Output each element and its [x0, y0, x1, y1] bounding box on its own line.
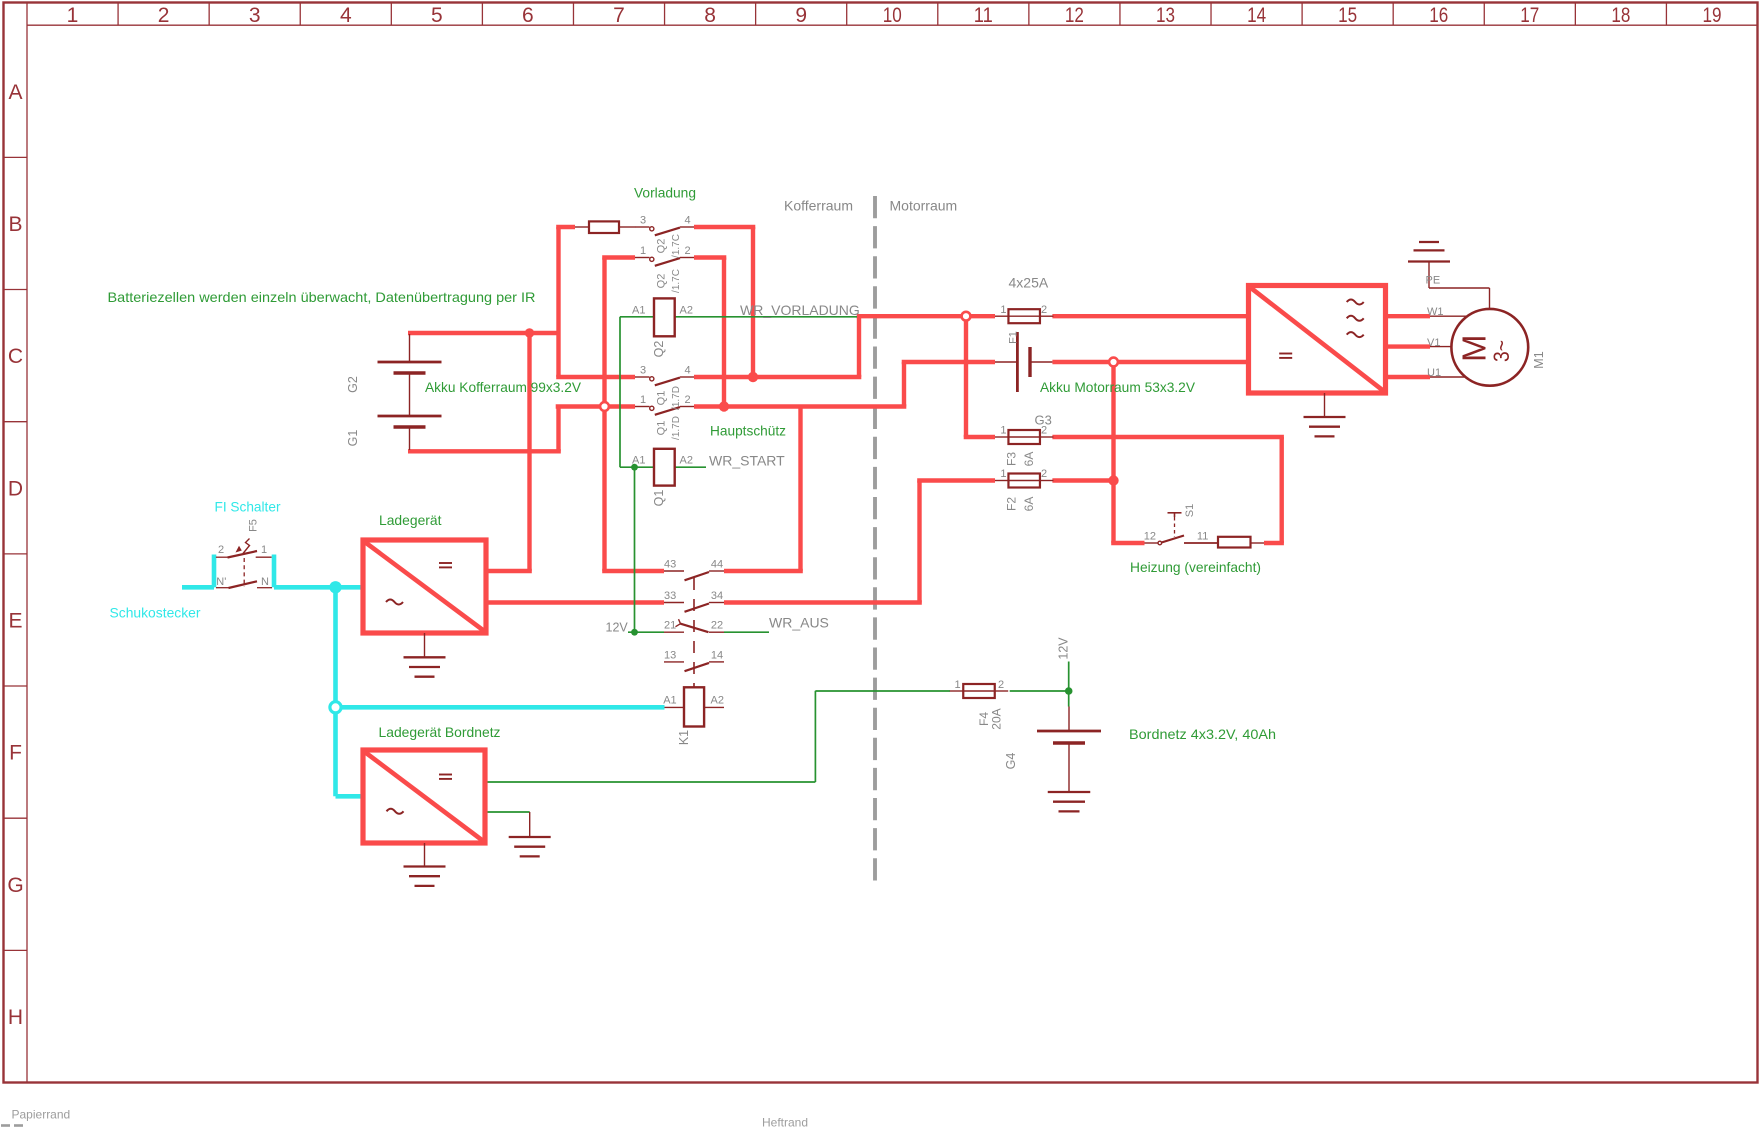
- svg-text:G3: G3: [1035, 413, 1052, 428]
- svg-text:2: 2: [218, 544, 224, 556]
- svg-text:K1: K1: [677, 730, 691, 745]
- svg-text:H: H: [8, 1006, 23, 1029]
- svg-text:Q1: Q1: [656, 421, 668, 436]
- svg-text:FI Schalter: FI Schalter: [215, 499, 281, 515]
- svg-text:12: 12: [1065, 4, 1084, 27]
- svg-text:12: 12: [1144, 531, 1156, 543]
- svg-text:1: 1: [640, 394, 646, 406]
- svg-text:43: 43: [664, 559, 676, 571]
- svg-text:WR_AUS: WR_AUS: [769, 615, 829, 631]
- svg-text:F2: F2: [1005, 497, 1019, 511]
- svg-text:Ladegerät Bordnetz: Ladegerät Bordnetz: [379, 724, 501, 740]
- svg-text:2: 2: [685, 245, 691, 257]
- svg-text:Heftrand: Heftrand: [762, 1116, 808, 1130]
- svg-text:1: 1: [955, 679, 961, 691]
- svg-text:2: 2: [685, 394, 691, 406]
- svg-text:S1: S1: [1184, 504, 1196, 517]
- svg-text:1: 1: [1000, 468, 1006, 480]
- svg-text:Motorraum: Motorraum: [890, 198, 958, 214]
- svg-text:Hauptschütz: Hauptschütz: [710, 423, 786, 439]
- svg-text:4: 4: [340, 4, 352, 27]
- svg-text:M: M: [1456, 334, 1493, 362]
- svg-text:9: 9: [795, 4, 807, 27]
- svg-text:Akku Motorraum 53x3.2V: Akku Motorraum 53x3.2V: [1040, 379, 1196, 395]
- svg-text:Schukostecker: Schukostecker: [110, 605, 201, 621]
- svg-text:15: 15: [1338, 4, 1357, 27]
- svg-text:12V: 12V: [1057, 637, 1071, 660]
- svg-text:A2: A2: [711, 695, 724, 707]
- svg-text:A1: A1: [663, 695, 676, 707]
- svg-text:N': N': [216, 576, 226, 588]
- svg-text:G2: G2: [346, 376, 360, 393]
- svg-text:5: 5: [431, 4, 443, 27]
- svg-text:8: 8: [704, 4, 716, 27]
- svg-text:Papierrand: Papierrand: [12, 1108, 71, 1122]
- svg-text:U1: U1: [1427, 367, 1441, 379]
- svg-text:G: G: [7, 874, 23, 897]
- svg-text:D: D: [8, 477, 23, 500]
- svg-text:A1: A1: [632, 304, 645, 316]
- svg-text:/1.7D: /1.7D: [671, 416, 682, 440]
- svg-text:14: 14: [711, 649, 723, 661]
- svg-text:WR_START: WR_START: [709, 453, 785, 469]
- svg-text:20A: 20A: [990, 708, 1004, 729]
- svg-text:33: 33: [664, 590, 676, 602]
- svg-text:21: 21: [664, 620, 676, 632]
- svg-text:A2: A2: [680, 455, 693, 467]
- svg-text:Ladegerät: Ladegerät: [379, 512, 442, 528]
- svg-text:G4: G4: [1004, 753, 1018, 770]
- svg-text:Q2: Q2: [656, 274, 668, 289]
- svg-text:1: 1: [1000, 304, 1006, 316]
- svg-text:6: 6: [522, 4, 534, 27]
- svg-text:Q2: Q2: [652, 341, 666, 358]
- svg-text:3~: 3~: [1489, 340, 1514, 362]
- svg-text:/1.7D: /1.7D: [671, 386, 682, 410]
- svg-text:7: 7: [613, 4, 625, 27]
- svg-text:18: 18: [1611, 4, 1630, 27]
- svg-text:N: N: [261, 576, 269, 588]
- svg-text:Q1: Q1: [652, 490, 666, 507]
- svg-text:1: 1: [640, 245, 646, 257]
- svg-text:Q2: Q2: [656, 239, 668, 254]
- svg-text:E: E: [8, 609, 22, 632]
- svg-text:A2: A2: [680, 304, 693, 316]
- svg-text:V1: V1: [1427, 337, 1440, 349]
- svg-text:1: 1: [261, 544, 267, 556]
- svg-text:A1: A1: [632, 455, 645, 467]
- svg-text:A: A: [8, 81, 22, 104]
- svg-text:G1: G1: [346, 430, 360, 447]
- svg-text:F: F: [9, 742, 22, 765]
- svg-text:3: 3: [640, 215, 646, 227]
- svg-text:1: 1: [1000, 425, 1006, 437]
- svg-text:2: 2: [998, 679, 1004, 691]
- svg-text:34: 34: [711, 590, 723, 602]
- svg-text:44: 44: [711, 559, 723, 571]
- svg-text:F3: F3: [1005, 452, 1019, 466]
- svg-text:/1.7C: /1.7C: [671, 234, 682, 258]
- svg-text:4: 4: [685, 215, 691, 227]
- svg-text:3: 3: [249, 4, 261, 27]
- svg-text:10: 10: [883, 4, 902, 27]
- svg-text:F1: F1: [1007, 331, 1019, 344]
- svg-text:11: 11: [974, 4, 993, 27]
- svg-text:F5: F5: [247, 519, 259, 532]
- svg-text:WR_VORLADUNG: WR_VORLADUNG: [740, 302, 860, 318]
- svg-text:Batteriezellen werden einzeln: Batteriezellen werden einzeln überwacht,…: [108, 289, 536, 305]
- svg-text:2: 2: [1041, 468, 1047, 480]
- svg-text:3: 3: [640, 365, 646, 377]
- svg-text:14: 14: [1247, 4, 1266, 27]
- svg-text:19: 19: [1703, 4, 1722, 27]
- svg-text:2: 2: [158, 4, 170, 27]
- svg-text:Kofferraum: Kofferraum: [784, 198, 853, 214]
- svg-text:1: 1: [67, 4, 79, 27]
- svg-text:13: 13: [664, 649, 676, 661]
- svg-text:Q1: Q1: [656, 391, 668, 406]
- svg-text:PE: PE: [1426, 274, 1441, 286]
- svg-text:13: 13: [1156, 4, 1175, 27]
- svg-text:Heizung (vereinfacht): Heizung (vereinfacht): [1130, 559, 1261, 575]
- svg-text:6A: 6A: [1022, 452, 1036, 467]
- svg-text:Akku Kofferraum 99x3.2V: Akku Kofferraum 99x3.2V: [425, 379, 582, 395]
- svg-text:Vorladung: Vorladung: [634, 185, 696, 201]
- svg-text:B: B: [8, 213, 22, 236]
- svg-text:4x25A: 4x25A: [1009, 275, 1049, 291]
- svg-text:4: 4: [685, 365, 691, 377]
- svg-text:/1.7C: /1.7C: [671, 269, 682, 293]
- svg-text:6A: 6A: [1022, 497, 1036, 512]
- svg-text:C: C: [8, 345, 23, 368]
- svg-text:11: 11: [1197, 531, 1208, 543]
- svg-text:W1: W1: [1427, 306, 1444, 318]
- svg-text:Bordnetz 4x3.2V, 40Ah: Bordnetz 4x3.2V, 40Ah: [1129, 726, 1276, 742]
- svg-text:12V: 12V: [606, 621, 629, 635]
- svg-text:2: 2: [1041, 304, 1047, 316]
- svg-text:16: 16: [1429, 4, 1448, 27]
- svg-text:22: 22: [711, 620, 723, 632]
- svg-text:17: 17: [1520, 4, 1539, 27]
- svg-text:M1: M1: [1532, 351, 1546, 368]
